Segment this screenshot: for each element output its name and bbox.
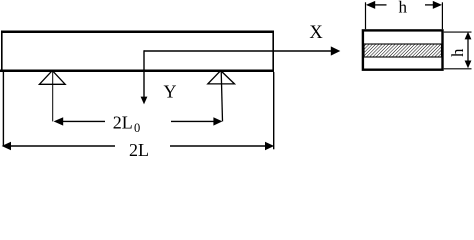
width dimension line left segment xyxy=(374,4,387,6)
svg-text:X: X xyxy=(309,23,323,43)
h dimension line xyxy=(467,39,469,62)
h extension line bottom xyxy=(444,68,472,70)
extension line left support xyxy=(52,71,54,122)
beam top edge xyxy=(1,31,274,34)
extension line right support xyxy=(221,71,222,122)
X axis arrowhead xyxy=(331,46,341,55)
section rectangle xyxy=(363,30,443,69)
Y axis arrowhead xyxy=(141,97,148,105)
extension line 2L left xyxy=(2,72,4,146)
dimension arrow h up xyxy=(465,32,472,40)
Y axis line xyxy=(143,50,145,98)
extension line 2L right xyxy=(273,72,275,149)
dimension line 2L0 left segment xyxy=(62,120,105,122)
dimension line 2L right segment xyxy=(170,145,266,147)
width dimension arrow left xyxy=(366,1,375,9)
svg-text:h: h xyxy=(399,0,408,17)
dimension line 2L left segment xyxy=(9,145,115,147)
svg-text:h: h xyxy=(448,48,467,57)
section core hatched band xyxy=(364,44,442,57)
svg-text:2L0: 2L0 xyxy=(113,113,141,136)
svg-text:Y: Y xyxy=(164,81,177,101)
beam bottom edge xyxy=(0,70,274,73)
support triangle right xyxy=(208,71,235,84)
dimension arrow 2L right xyxy=(265,142,274,150)
h extension line top xyxy=(444,31,472,33)
beam right edge xyxy=(272,31,274,73)
svg-text:2L: 2L xyxy=(129,140,149,157)
width dimension extension bar right xyxy=(441,2,443,29)
dimension arrow h down xyxy=(465,61,472,69)
dimension arrow 2L left xyxy=(2,142,11,150)
width dimension line right segment xyxy=(425,4,434,6)
dimension arrow 2L0 right xyxy=(213,117,222,125)
dimension line 2L0 right segment xyxy=(171,120,215,122)
X axis line xyxy=(144,50,332,52)
width dimension arrow right xyxy=(433,1,442,9)
dimension arrow 2L0 left xyxy=(54,117,64,125)
support triangle left xyxy=(39,71,65,85)
beam left edge xyxy=(1,31,3,73)
width dimension extension bar left xyxy=(365,2,367,29)
